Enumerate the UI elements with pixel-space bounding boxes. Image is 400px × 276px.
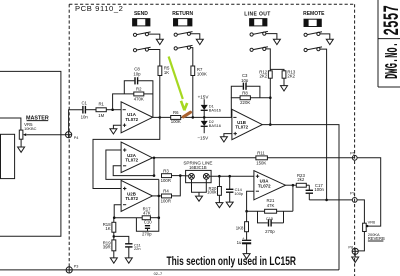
switch REMOTE a — [304, 32, 330, 40]
resistor R6 — [171, 110, 232, 124]
svg-text:C10: C10 — [144, 220, 152, 225]
node R7 junction — [192, 116, 195, 119]
resistor R2 — [134, 87, 153, 102]
resistor R11 — [256, 151, 268, 166]
wire wet signal rail to P9 — [309, 199, 352, 201]
resistor R20 — [207, 176, 221, 195]
wire U2B feedback — [114, 205, 121, 218]
wire U2A plus input loop — [106, 150, 159, 179]
svg-text:−15V: −15V — [197, 136, 209, 141]
node P8 — [348, 245, 358, 255]
svg-text:P6: P6 — [350, 151, 355, 156]
power -15V — [197, 136, 209, 141]
diode D1 — [201, 99, 221, 117]
ground U1B plus input — [220, 134, 232, 142]
resistor R4 — [161, 176, 181, 204]
resistor R22 bias chain — [236, 211, 249, 232]
svg-text:1K8: 1K8 — [236, 225, 244, 230]
node R12 feedback junction — [269, 96, 272, 126]
wire R5 to U1A output node — [159, 76, 161, 118]
wire U3A feedback rail — [247, 185, 293, 211]
svg-text:1K: 1K — [105, 226, 110, 231]
ground R13 — [281, 78, 288, 91]
node C14 tap — [228, 175, 231, 178]
svg-text:150K: 150K — [256, 160, 266, 165]
ground C11 — [125, 258, 132, 263]
op-amp U2B — [121, 180, 152, 211]
annotation green arrow — [169, 57, 188, 111]
node feedback junctions — [245, 184, 294, 213]
resistor R18 — [103, 218, 116, 233]
svg-text:BAS16: BAS16 — [209, 123, 221, 128]
potentiometer VR5 — [19, 130, 65, 139]
svg-text:100R: 100R — [161, 178, 171, 183]
ground LINE OUT a — [273, 39, 280, 44]
ground U1A plus input — [110, 125, 121, 134]
wire U2A output — [152, 158, 354, 176]
wire P4 to C1 — [69, 110, 83, 132]
wire P9 to VR6 top — [357, 200, 364, 223]
svg-text:RETURN: RETURN — [172, 11, 193, 17]
op-amp U1A — [121, 102, 153, 133]
ground REMOTE a — [326, 39, 333, 44]
ground VR5 — [18, 139, 25, 152]
svg-text:TL072: TL072 — [125, 196, 138, 201]
resistor R8 — [240, 90, 270, 105]
switch LINE OUT a — [250, 31, 277, 39]
svg-text:1u: 1u — [237, 240, 242, 245]
resistor R19 — [103, 240, 116, 251]
switch SEND b — [133, 47, 159, 66]
resistor R13 — [282, 70, 296, 79]
svg-text:10n: 10n — [81, 114, 89, 119]
wire U3A feedback left — [247, 191, 254, 211]
jack LINE OUT — [250, 19, 267, 26]
capacitor C1 — [81, 100, 96, 119]
power +15V — [198, 94, 210, 99]
svg-text:This section only used in LC15: This section only used in LC15R — [167, 256, 297, 268]
switch RETURN b — [174, 45, 193, 66]
note text LC15R — [167, 256, 297, 268]
svg-text:100K: 100K — [197, 71, 207, 76]
wire R7 down to U1B input rail — [192, 76, 194, 118]
node P3 — [66, 264, 78, 273]
node R18 R19 junction — [113, 232, 116, 240]
svg-text:C1: C1 — [81, 100, 87, 105]
jack RETURN — [174, 19, 192, 26]
svg-text:270p: 270p — [142, 232, 152, 237]
op-amp U2A — [121, 142, 152, 173]
wire U1A out node down to U2 input rail — [93, 117, 160, 188]
op-amp U3A — [254, 171, 286, 200]
annotation orange mark — [183, 112, 190, 117]
wire tank input — [180, 175, 188, 177]
svg-text:10KBC: 10KBC — [24, 126, 37, 131]
wire VR6 bottom to P8 — [358, 232, 364, 251]
svg-text:100n: 100n — [314, 187, 324, 192]
wire P6 to VR6 wiper — [357, 158, 381, 226]
svg-text:22n: 22n — [134, 246, 141, 251]
svg-text:P4: P4 — [74, 136, 79, 140]
node U1A output junction — [159, 116, 162, 119]
svg-text:PCB 9110_2: PCB 9110_2 — [75, 4, 124, 13]
svg-text:C15: C15 — [266, 216, 273, 221]
svg-text:10p: 10p — [133, 71, 141, 76]
svg-text:P9: P9 — [350, 190, 355, 195]
node P6 — [350, 151, 357, 161]
svg-text:10p: 10p — [241, 78, 249, 83]
svg-text:TL072: TL072 — [258, 183, 271, 188]
wire U1B feedback left — [231, 98, 240, 118]
node tank input junction — [179, 174, 182, 177]
svg-text:REVERB: REVERB — [368, 236, 385, 241]
svg-text:VR6: VR6 — [368, 219, 376, 224]
svg-text:BAS16: BAS16 — [209, 107, 221, 112]
PCB dashed border — [69, 4, 354, 276]
svg-text:470K: 470K — [134, 96, 144, 101]
svg-text:47K: 47K — [143, 210, 151, 215]
net label 02-7 — [154, 271, 163, 276]
svg-text:16B3C1B: 16B3C1B — [189, 165, 207, 170]
connector box left edge — [1, 134, 15, 178]
node P9 — [350, 190, 357, 202]
capacitor C14 — [226, 176, 243, 202]
ground R19 — [110, 251, 117, 263]
svg-text:REMOTE: REMOTE — [303, 11, 325, 17]
jack SEND label — [134, 11, 148, 17]
node diode junction — [203, 116, 206, 119]
jack SEND — [133, 19, 150, 26]
resistor R1 — [96, 101, 121, 118]
potentiometer VR6 — [363, 219, 385, 241]
node U2B output junction — [158, 195, 161, 219]
wire into MASTER pot — [0, 118, 21, 130]
svg-text:100k: 100k — [207, 190, 217, 195]
node P4 — [66, 132, 79, 141]
svg-text:R2: R2 — [136, 87, 142, 92]
MASTER label — [26, 115, 49, 121]
ground R20 — [216, 195, 223, 207]
wire U1A feedback left — [113, 94, 134, 110]
op-amp U1B — [232, 109, 262, 139]
svg-text:1K: 1K — [164, 70, 169, 75]
switch REMOTE b — [304, 47, 327, 200]
node U2B feedback junction — [113, 216, 116, 219]
svg-text:LINE OUT: LINE OUT — [244, 11, 271, 17]
jack REMOTE label — [303, 11, 325, 17]
resistor R21 — [265, 198, 277, 213]
title block — [378, 0, 400, 87]
ground RETURN a — [196, 39, 203, 44]
capacitor C10 — [136, 218, 158, 232]
svg-text:270p: 270p — [265, 229, 275, 234]
wire R17 rail — [114, 217, 159, 219]
svg-text:100R: 100R — [161, 199, 171, 204]
svg-text:1M: 1M — [98, 113, 104, 118]
node U2A output junctions — [153, 157, 156, 177]
svg-text:220K: 220K — [240, 100, 250, 105]
wire R12 to U1B feedback node — [269, 78, 271, 124]
svg-text:2K2: 2K2 — [260, 74, 268, 79]
spring line tank connector — [186, 170, 212, 182]
node U1A input junction — [111, 108, 114, 111]
wire U1A output — [153, 116, 171, 118]
capacitor C8 — [124, 67, 153, 118]
resistor R23 — [296, 173, 309, 187]
resistor R7 — [191, 66, 207, 76]
svg-text:47K: 47K — [267, 203, 275, 208]
ground C16 — [243, 254, 250, 259]
capacitor C15 — [258, 211, 284, 223]
ground C14 — [226, 202, 233, 207]
wire U2B output — [152, 179, 161, 217]
svg-text:+: + — [242, 237, 244, 241]
switch LINE OUT b — [250, 47, 284, 71]
capacitor C11 — [114, 236, 141, 258]
svg-text:TL072: TL072 — [125, 158, 138, 163]
svg-text:DWG.No.: DWG.No. — [383, 42, 400, 79]
resistor R5 — [158, 66, 170, 76]
node remote tap — [325, 199, 328, 202]
jack RETURN label — [172, 11, 193, 17]
svg-text:R4: R4 — [163, 189, 169, 194]
wire U1B output — [262, 125, 339, 270]
svg-text:P8: P8 — [348, 245, 353, 250]
wire tank shield ground — [192, 179, 207, 201]
jack REMOTE — [304, 19, 321, 26]
resistor R3 — [161, 168, 181, 183]
switch SEND a — [133, 32, 159, 39]
capacitor C16 electrolytic — [237, 232, 252, 254]
wire bottom return rail — [0, 269, 339, 271]
svg-text:R8: R8 — [242, 90, 248, 95]
switch RETURN a — [174, 32, 200, 40]
svg-text:R1: R1 — [98, 101, 104, 106]
svg-text:TL072: TL072 — [125, 117, 138, 122]
svg-text:2k2: 2k2 — [297, 177, 305, 182]
svg-text:02–7: 02–7 — [154, 271, 163, 276]
svg-text:39R: 39R — [103, 245, 111, 250]
svg-text:100p: 100p — [234, 191, 243, 196]
svg-text:+15V: +15V — [198, 94, 210, 99]
jack LINE OUT label — [244, 11, 271, 17]
svg-text:2K2: 2K2 — [287, 74, 295, 79]
svg-text:TL072: TL072 — [235, 125, 248, 130]
capacitor C17 — [306, 183, 325, 200]
wire U2A feedback — [113, 166, 154, 176]
diode D2 — [201, 117, 221, 133]
ground SEND a — [156, 39, 163, 44]
potentiometer VR5 labels — [24, 122, 37, 131]
svg-text:R11: R11 — [257, 151, 265, 156]
title block number 2557 — [381, 5, 400, 36]
svg-text:2557: 2557 — [381, 5, 400, 36]
wire tank output — [209, 175, 254, 177]
svg-text:R3: R3 — [163, 168, 169, 173]
svg-text:100K: 100K — [171, 119, 181, 124]
amp section box (left, cut off) — [0, 71, 61, 236]
wire U3A output — [286, 184, 297, 186]
spring line labels — [183, 161, 212, 170]
title block DWG.No. — [383, 42, 400, 79]
svg-text:R6: R6 — [173, 110, 179, 115]
svg-text:SEND: SEND — [134, 11, 148, 17]
node R20 tap — [218, 175, 221, 178]
svg-text:P3: P3 — [74, 264, 79, 268]
capacitor C3 — [231, 73, 260, 98]
resistor R12 — [259, 70, 272, 79]
resistor R17 — [142, 206, 151, 219]
ground P8 — [352, 254, 359, 262]
